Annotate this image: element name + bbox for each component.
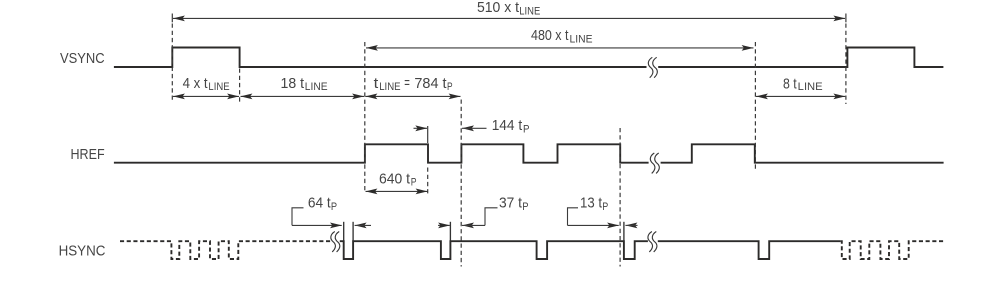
label HSYNC [59,243,106,260]
svg-text:4 x t: 4 x t [183,75,209,92]
dimension arrow tLINE = 784 tP [365,94,460,100]
svg-text:144 t: 144 t [492,117,523,134]
label HREF [71,146,105,163]
HSYNC dashed waveform right [840,241,943,259]
dimension arrow 37 tP [438,223,485,229]
dimension arrow 18 tLINE [240,94,364,100]
dimension arrow 13 tP [568,223,638,229]
HSYNC break squiggle left [331,232,340,252]
HSYNC pulse edge extension ticks [344,222,624,241]
dimension arrow 510 x tLINE [173,16,846,22]
dimension arrow 144 tP [414,125,487,131]
VSYNC waveform [114,48,944,68]
svg-text:37 t: 37 t [499,195,523,212]
svg-text:VSYNC: VSYNC [60,50,105,67]
dimension arrow 4 x tLINE [173,94,239,100]
HREF waveform [114,144,944,162]
svg-text:LINE: LINE [305,81,328,93]
dashed line at frame start x=172 [171,14,173,103]
label 8 tLINE [783,75,823,93]
dimension arrow 480 x tLINE [366,45,754,51]
svg-text:510 x t: 510 x t [477,0,520,16]
svg-text:P: P [602,201,608,213]
leader 37 tP [485,208,498,226]
dashed line at VSYNC fall x=240 [239,69,241,103]
dashed line x=620 [619,128,621,267]
svg-text:18 t: 18 t [281,75,305,92]
svg-text:8 t: 8 t [783,75,797,92]
leader 13 tP [568,208,579,226]
HSYNC dashed waveform left [120,241,331,259]
HSYNC break squiggle mid [648,232,657,252]
label 510 x tLINE [477,0,540,17]
svg-text:=: = [404,75,410,92]
HREF break squiggle [650,153,659,173]
label tLINE = 784 tP [374,75,453,93]
svg-text:HREF: HREF [71,146,105,163]
dashed line x=755 [754,42,756,169]
svg-text:LINE: LINE [379,81,400,93]
label 13 tP [580,195,608,213]
svg-text:P: P [411,177,417,189]
svg-text:LINE: LINE [570,34,593,46]
dimension arrow 8 tLINE [756,94,846,100]
label 18 tLINE [281,75,328,93]
svg-text:64 t: 64 t [308,195,332,212]
dimension arrow 64 tP [292,223,371,229]
svg-text:HSYNC: HSYNC [59,243,106,260]
svg-text:P: P [447,81,453,93]
tick at HREF fall x=428 [427,126,429,194]
svg-text:LINE: LINE [798,81,823,93]
svg-text:13 t: 13 t [580,195,603,212]
label 64 tP [308,195,337,213]
VSYNC break squiggle [648,57,657,77]
svg-text:784 t: 784 t [414,75,447,92]
label 4 x tLINE [183,75,230,93]
dashed line at line start x=365 [364,42,366,193]
label 480 x tLINE [531,27,593,46]
label VSYNC [60,50,105,67]
label 640 tP [379,171,417,189]
leader 64 tP [292,208,304,226]
svg-text:LINE: LINE [208,81,229,93]
svg-text:640 t: 640 t [379,171,411,188]
svg-text:LINE: LINE [519,5,540,17]
svg-text:P: P [522,201,528,213]
dashed line at line end x=461 [460,100,462,267]
dashed line at frame end x=846 [845,14,847,105]
HSYNC solid waveform [340,241,840,259]
svg-text:P: P [523,123,530,135]
dimension arrow 640 tP [365,189,427,195]
label 144 tP [492,117,530,135]
svg-text:480 x t: 480 x t [531,27,569,44]
label 37 tP [499,195,529,213]
svg-text:P: P [331,201,337,213]
